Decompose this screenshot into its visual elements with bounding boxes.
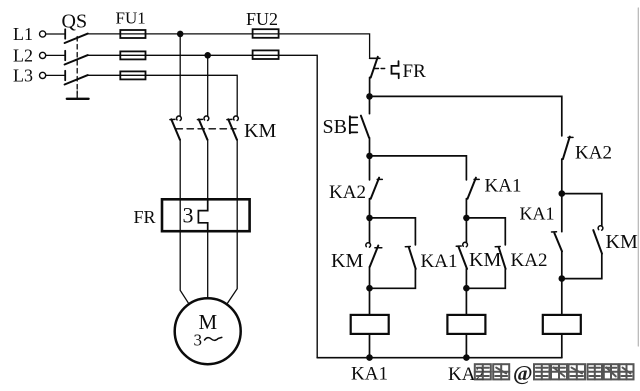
- svg-text:KA2: KA2: [575, 143, 612, 164]
- contact KM parallel (branch 3): [562, 194, 638, 279]
- node branch 1 upper junction: [366, 215, 373, 222]
- svg-text:KA1: KA1: [351, 364, 388, 385]
- contact KA2 parallel (branch 2): [466, 218, 547, 288]
- svg-text:SB: SB: [323, 116, 347, 138]
- node branch 2 upper junction: [463, 215, 470, 222]
- switch QS: [62, 11, 89, 99]
- wire control top rail to right branch drop: [370, 96, 562, 135]
- svg-text:KM: KM: [244, 120, 276, 142]
- wire L2 terminal to QS: [46, 54, 64, 56]
- node bus junction coil KA1: [366, 354, 373, 361]
- contact KA2 NO (branch 1): [329, 156, 382, 218]
- svg-text:FR: FR: [134, 207, 156, 227]
- wire FR box to motor (middle phase): [207, 231, 209, 298]
- svg-text:3: 3: [194, 331, 203, 350]
- svg-text:FR: FR: [403, 61, 427, 82]
- node junction L1 tap: [177, 31, 184, 38]
- pushbutton SB (NC stop): [323, 96, 370, 156]
- node L1 terminal: [13, 24, 46, 44]
- wire coil KA1 to bus: [369, 334, 371, 358]
- motor M 3~: [175, 298, 241, 364]
- wire SB node to branch 2 drop: [370, 156, 467, 180]
- wire L3 row: QS to drop at x=237: [88, 75, 238, 116]
- wire bottom bus: [317, 357, 562, 359]
- coil KA2: [447, 315, 485, 385]
- decorative right edge line: [637, 8, 639, 346]
- node branch 3 lower junction: [559, 275, 566, 282]
- wire L2 row: QS to left control drop at x=317 down to bottom bus: [88, 55, 318, 357]
- wire branch 2 node to coil: [465, 288, 467, 315]
- node L2 terminal: [13, 46, 46, 66]
- linkage dashes: [176, 128, 236, 130]
- wire branch 3 node to coil: [561, 279, 563, 315]
- svg-text:KM: KM: [469, 249, 501, 271]
- svg-text:KM: KM: [606, 231, 638, 253]
- svg-text:KA1: KA1: [520, 204, 555, 224]
- watermark 头条 @全球电气资源: [475, 361, 634, 385]
- contact KA1 (branch 3): [520, 194, 563, 279]
- svg-text:@: @: [513, 361, 533, 385]
- wire coil KA2 to bus: [465, 334, 467, 358]
- node junction L2 tap: [204, 52, 211, 59]
- svg-text:FU1: FU1: [116, 9, 146, 28]
- svg-text:KA2: KA2: [329, 182, 366, 203]
- pole 3: [234, 116, 239, 120]
- thermal relay FR NC contact: [370, 57, 426, 97]
- wire L2 tap down to KM pole 2: [207, 55, 209, 116]
- wire branch 1 node to coil: [369, 288, 371, 315]
- wire coil KM to bus: [561, 334, 563, 358]
- contact KM NO self-hold (branch 2): [456, 218, 501, 288]
- node branch 3 upper junction: [559, 190, 566, 197]
- svg-text:3: 3: [183, 203, 194, 228]
- node L3 terminal: [13, 66, 46, 86]
- wire L1 row: QS to FU2 corner: [88, 34, 370, 57]
- wire KM pole 2 to FR box: [207, 140, 209, 200]
- coil KM: [543, 315, 581, 334]
- svg-text:FU2: FU2: [246, 9, 278, 29]
- wire KM pole 3 to FR box: [236, 140, 238, 200]
- node branch 1 lower junction: [366, 285, 373, 292]
- node control top junction: [366, 93, 373, 100]
- node branch 2 lower junction: [463, 285, 470, 292]
- contactor KM main contacts (3-pole): [170, 116, 277, 142]
- wire L1 tap down to KM pole 1: [179, 34, 181, 116]
- pole 2: [204, 116, 209, 120]
- contact KA1 parallel (branch 1): [370, 218, 458, 288]
- svg-text:KA1: KA1: [485, 176, 522, 197]
- coil KA1: [351, 315, 389, 385]
- node bus junction coil KA2: [463, 354, 470, 361]
- fuse FU1 (3-pole): [116, 9, 146, 80]
- svg-text:L1: L1: [13, 24, 33, 44]
- wire FR box to motor (left phase): [180, 231, 189, 304]
- fuse FU2 (2-pole): [246, 9, 279, 59]
- contact KA2 NO (branch 3): [562, 137, 612, 194]
- thermal relay FR heater element box: [134, 199, 250, 231]
- wire L1 terminal to QS: [46, 33, 64, 35]
- svg-text:KA2: KA2: [511, 250, 548, 271]
- contact KA1 NO (branch 2): [466, 176, 521, 219]
- wire KM pole 1 to FR box: [179, 140, 181, 200]
- wire L3 terminal to QS: [46, 74, 64, 76]
- pole 1: [177, 116, 182, 120]
- wire FR box to motor (right phase): [228, 231, 238, 303]
- svg-text:L3: L3: [13, 66, 33, 86]
- svg-text:KA1: KA1: [421, 251, 458, 272]
- contact KM NO self-hold (branch 1): [331, 218, 382, 288]
- svg-text:KM: KM: [331, 250, 363, 272]
- svg-text:L2: L2: [13, 46, 33, 66]
- node SB bottom junction: [366, 153, 373, 160]
